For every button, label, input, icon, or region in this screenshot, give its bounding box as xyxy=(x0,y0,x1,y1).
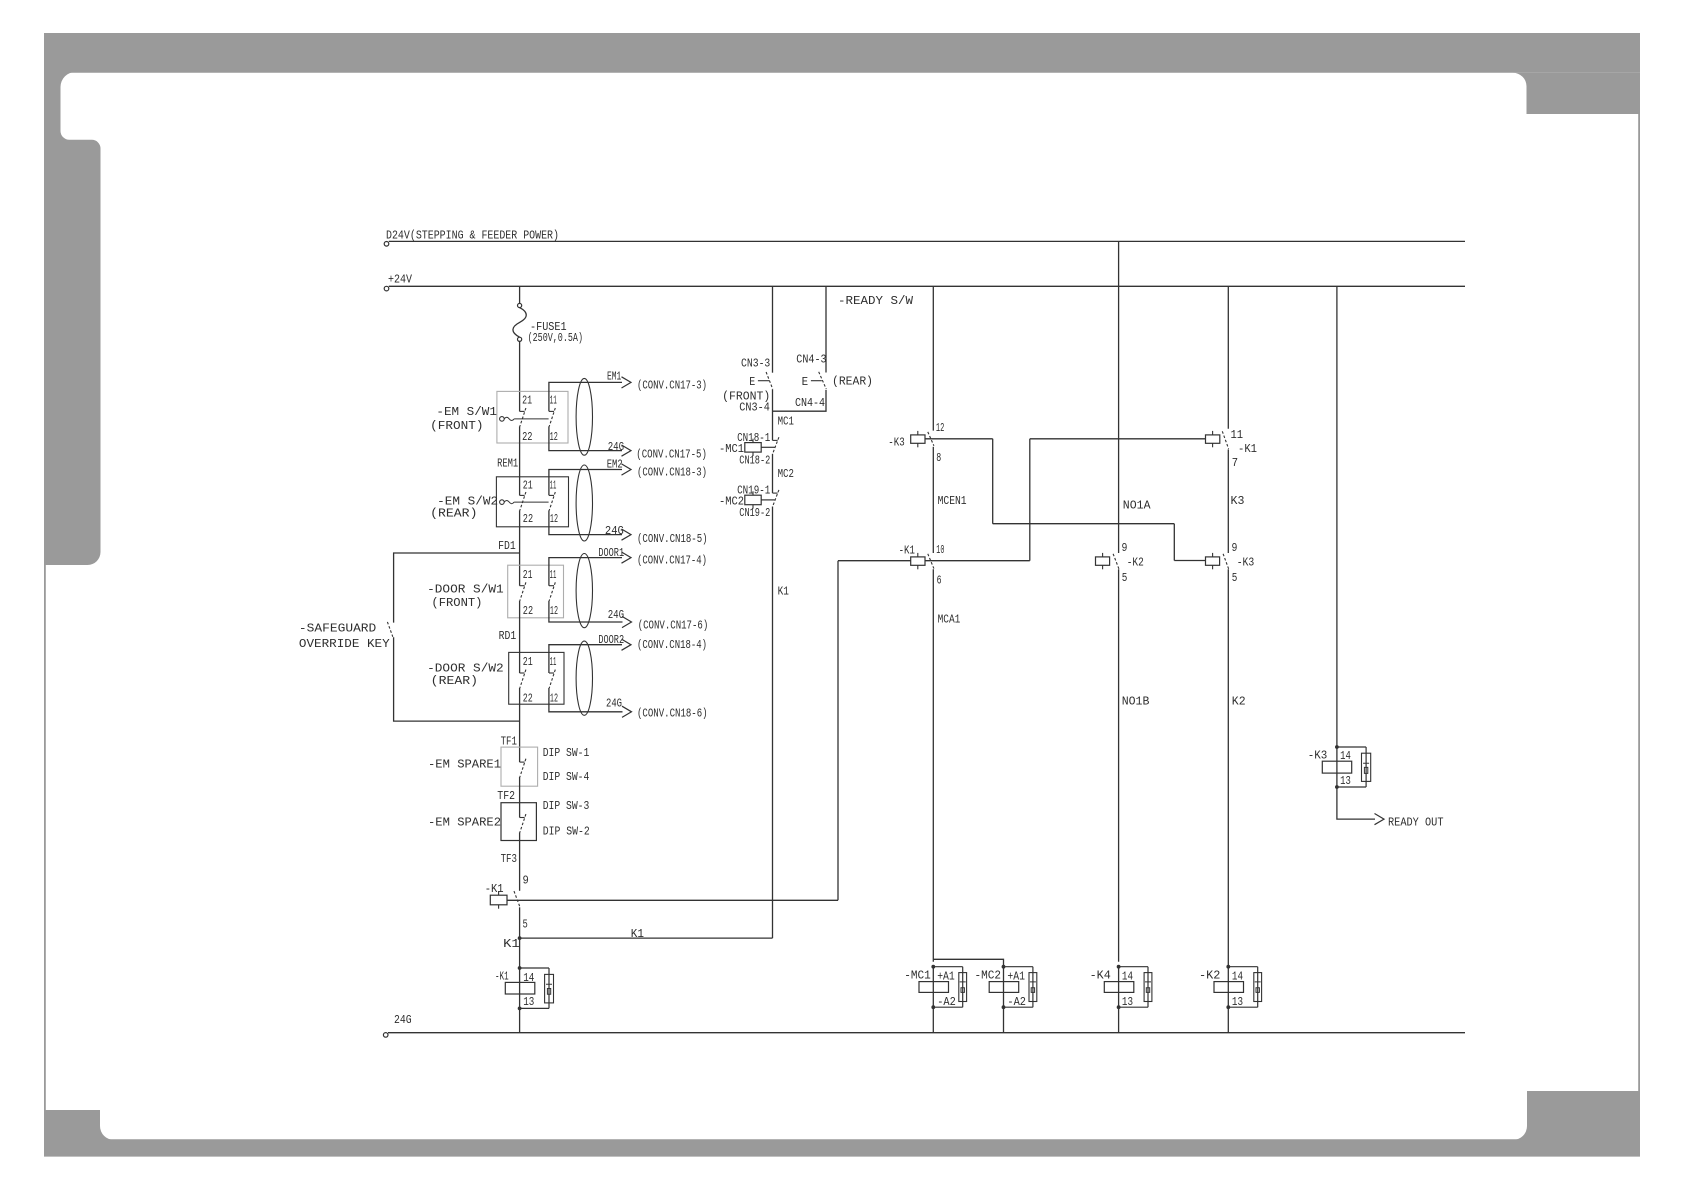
svg-text:9: 9 xyxy=(1232,541,1238,555)
relay contact -K1 slash row A right xyxy=(1222,431,1228,449)
arrow READY OUT xyxy=(1375,814,1385,825)
diode of -K1 coil xyxy=(520,968,549,1008)
relay contact -K2 slash xyxy=(1113,554,1119,569)
svg-text:12: 12 xyxy=(550,430,558,444)
svg-text:-K1: -K1 xyxy=(1238,442,1257,456)
svg-text:E: E xyxy=(802,375,809,389)
wire NO1B column lower xyxy=(1118,569,1120,962)
wire fuse to EM S/W1 xyxy=(519,341,521,411)
wire MCEN1 column mid xyxy=(932,447,934,553)
node -MC1 coil bottom junction xyxy=(931,1005,935,1009)
svg-text:9: 9 xyxy=(523,873,529,887)
svg-text:(CONV.CN17-6): (CONV.CN17-6) xyxy=(638,619,709,633)
svg-text:K1: K1 xyxy=(631,927,644,941)
node -MC2 coil top junction xyxy=(1002,965,1006,969)
svg-text:14: 14 xyxy=(1122,969,1133,983)
arrow 24G CN17-5 xyxy=(622,445,632,456)
svg-text:MCA1: MCA1 xyxy=(938,612,961,626)
wire left column below contact xyxy=(519,907,521,1032)
wire MCA1 column lower xyxy=(932,569,934,962)
arrow 24G CN18-5 xyxy=(622,529,632,540)
svg-text:-DOOR S/W1: -DOOR S/W1 xyxy=(427,583,504,597)
wire -K2 column through coil xyxy=(1227,967,1229,1008)
wire -K3 rowA to crosslink xyxy=(925,439,993,524)
svg-text:DIP SW-1: DIP SW-1 xyxy=(543,746,590,760)
svg-text:14: 14 xyxy=(1232,969,1243,983)
wire K1 link xyxy=(520,937,773,939)
relay contact -K1 flag box xyxy=(490,895,507,905)
svg-text:(REAR): (REAR) xyxy=(430,506,477,520)
svg-text:13: 13 xyxy=(1340,774,1351,788)
svg-text:E: E xyxy=(749,375,755,389)
svg-text:-EM SPARE2: -EM SPARE2 xyxy=(428,815,501,829)
switch DOOR S/W1 contact 11-12 xyxy=(549,585,554,587)
wire -MC2 box to column xyxy=(761,499,774,501)
arrow DOOR1 xyxy=(622,552,632,563)
diode of -K4 xyxy=(1119,967,1148,1008)
node -K1 coil bottom junction xyxy=(518,1007,522,1011)
svg-text:7: 7 xyxy=(1232,456,1238,470)
wire rowA to -K1 contact on K3 column xyxy=(1030,438,1206,440)
cable ellipse of EM S/W2 xyxy=(576,465,592,541)
svg-text:-SAFEGUARD: -SAFEGUARD xyxy=(299,622,376,636)
wire rear E branch join xyxy=(773,390,827,411)
switch SAFEGUARD OVERRIDE KEY contact xyxy=(387,622,392,637)
node -MC1 coil top junction xyxy=(931,965,935,969)
wire EM S/W2 to DOOR S/W1 xyxy=(519,510,521,585)
svg-text:CN19-2: CN19-2 xyxy=(739,506,770,520)
node -MC2 coil bottom junction xyxy=(1002,1005,1006,1009)
svg-text:-MC2: -MC2 xyxy=(975,969,1002,983)
svg-text:24G: 24G xyxy=(605,524,624,538)
svg-text:EM1: EM1 xyxy=(607,369,621,383)
node K1 junction xyxy=(518,936,522,940)
svg-text:13: 13 xyxy=(523,995,534,1009)
svg-text:(FRONT): (FRONT) xyxy=(430,419,483,433)
wire -MC1 box to column xyxy=(761,446,774,448)
arrow DOOR2 xyxy=(622,639,632,650)
node -K3 coil bottom junction xyxy=(1335,785,1339,789)
svg-text:-K3: -K3 xyxy=(1308,749,1328,763)
svg-text:(CONV.CN17-4): (CONV.CN17-4) xyxy=(637,554,707,568)
svg-text:-READY S/W: -READY S/W xyxy=(838,294,914,308)
wire 24G output of EM S/W2 xyxy=(549,510,622,534)
wire DOOR2 output xyxy=(549,645,622,673)
wire READY OUT xyxy=(1337,787,1375,819)
switch EM SPARE2 contact xyxy=(520,817,525,819)
svg-text:TF1: TF1 xyxy=(501,735,517,749)
svg-text:6: 6 xyxy=(937,573,942,587)
svg-text:11: 11 xyxy=(550,655,557,669)
switch DOOR S/W1 body box xyxy=(508,565,564,618)
wire between MC1 and MC2 contacts xyxy=(772,454,774,493)
switch EM S/W1 actuator xyxy=(500,417,505,422)
wire MCEN1 column upper xyxy=(932,286,934,430)
wire -MC1 coil to 24G xyxy=(932,1007,934,1032)
svg-text:(250V,0.5A): (250V,0.5A) xyxy=(528,331,583,345)
svg-text:DIP SW-2: DIP SW-2 xyxy=(543,824,590,838)
switch EM SPARE1 body box xyxy=(501,747,538,786)
relay contact -K1 flag box row A right xyxy=(1206,435,1220,443)
wire EM SPARE2 down to K1 contact xyxy=(519,832,521,890)
wire link to -K3 row C xyxy=(1174,560,1205,562)
svg-text:-K2: -K2 xyxy=(1127,555,1144,569)
wire EM SPARE1 to EM SPARE2 xyxy=(519,777,521,818)
switch CN4 rear E contact xyxy=(819,372,827,389)
svg-text:CN4-3: CN4-3 xyxy=(796,353,826,367)
arrow EM2 xyxy=(622,464,632,475)
node -K4 coil top junction xyxy=(1117,965,1121,969)
svg-text:READY OUT: READY OUT xyxy=(1388,815,1444,829)
svg-text:24G: 24G xyxy=(608,440,624,454)
svg-text:(REAR): (REAR) xyxy=(431,674,478,688)
relay contact -K1 flag box row C xyxy=(911,557,925,565)
gray top band of page frame xyxy=(44,33,1640,73)
gray bottom-left corner tab xyxy=(44,1110,114,1140)
svg-text:-K1: -K1 xyxy=(495,970,509,984)
coil rect -K2 xyxy=(1214,982,1244,993)
wire 24G output of DOOR S/W1 xyxy=(549,601,623,622)
svg-text:11: 11 xyxy=(1231,428,1244,442)
relay contact MC1 slash xyxy=(773,439,778,441)
svg-text:11: 11 xyxy=(550,394,557,408)
diode of -MC2 xyxy=(1004,967,1033,1008)
wire EM2 output xyxy=(549,470,622,496)
svg-text:11: 11 xyxy=(550,479,557,493)
svg-text:TF3: TF3 xyxy=(501,852,517,866)
fuse FUSE1 xyxy=(518,303,522,307)
switch EM SPARE2 body box xyxy=(501,803,536,841)
wire +24V rail xyxy=(389,285,1465,287)
wire 24G output of DOOR S/W2 xyxy=(549,688,623,712)
svg-text:-K4: -K4 xyxy=(1090,969,1111,983)
svg-text:NO1A: NO1A xyxy=(1123,499,1151,513)
switch CN3 front E contact xyxy=(766,372,773,389)
wire NO1A column upper xyxy=(1118,241,1120,553)
wire -K4 coil to 24G xyxy=(1118,1007,1120,1032)
arrow 24G CN17-6 xyxy=(622,616,632,627)
switch EM S/W2 contact 21-22 xyxy=(520,494,525,496)
switch EM S/W1 contact 21-22 xyxy=(520,410,525,412)
svg-text:11: 11 xyxy=(550,568,557,582)
svg-text:-EM S/W1: -EM S/W1 xyxy=(436,405,497,419)
wire K2 column lower xyxy=(1227,569,1229,967)
gray bottom-right corner tab xyxy=(1513,1091,1640,1140)
relay contact -MC1 flag box xyxy=(745,443,761,453)
svg-text:14: 14 xyxy=(1340,749,1351,763)
svg-text:RD1: RD1 xyxy=(499,629,517,643)
svg-text:FD1: FD1 xyxy=(498,539,516,553)
svg-text:-K3: -K3 xyxy=(1237,555,1255,569)
relay contact -K3 slash row A xyxy=(928,432,934,446)
svg-text:EM2: EM2 xyxy=(607,458,623,472)
svg-text:(CONV.CN18-4): (CONV.CN18-4) xyxy=(637,638,707,652)
relay contact -K1 slash row C xyxy=(928,554,934,569)
wire MCA1 horizontal to -K1 contact xyxy=(507,899,838,901)
svg-text:(CONV.CN17-3): (CONV.CN17-3) xyxy=(637,379,707,393)
svg-text:22: 22 xyxy=(523,692,533,706)
svg-text:12: 12 xyxy=(550,692,558,706)
node -K2 coil top junction xyxy=(1226,965,1230,969)
diode of -K2 xyxy=(1228,967,1257,1008)
svg-text:DIP SW-4: DIP SW-4 xyxy=(543,770,590,784)
node -K2 coil bottom junction xyxy=(1226,1005,1230,1009)
svg-text:(REAR): (REAR) xyxy=(832,375,873,389)
svg-text:22: 22 xyxy=(523,512,533,526)
coil rect -K4 xyxy=(1104,982,1134,993)
switch EM S/W1 contact 11-12 xyxy=(549,410,554,412)
wire 24G rail xyxy=(388,1032,1465,1034)
svg-text:MC2: MC2 xyxy=(778,467,794,481)
wire rowC right link xyxy=(925,560,1030,562)
node D24V terminal circle xyxy=(384,242,389,247)
wire -MC2 column through coil xyxy=(1003,967,1005,1008)
relay contact -K3 flag box row A xyxy=(911,435,925,443)
node 24G terminal circle xyxy=(383,1033,388,1038)
wire safeguard top branch xyxy=(394,553,520,623)
svg-text:K1: K1 xyxy=(778,585,789,599)
svg-text:-K1: -K1 xyxy=(899,544,915,558)
svg-text:5: 5 xyxy=(1122,571,1128,585)
svg-text:(CONV.CN17-5): (CONV.CN17-5) xyxy=(636,448,707,462)
node -K4 coil bottom junction xyxy=(1117,1005,1121,1009)
wire front E-switch column from +24V xyxy=(772,286,774,372)
svg-text:(CONV.CN18-3): (CONV.CN18-3) xyxy=(637,465,707,479)
wire +24V to fuse xyxy=(519,286,521,303)
svg-text:8: 8 xyxy=(936,451,941,465)
switch DOOR S/W2 body box xyxy=(509,652,564,704)
wire -MC2 coil to 24G xyxy=(1003,1007,1005,1032)
relay contact -K2 flag box xyxy=(1096,557,1110,565)
wire EM S/W1 to EM S/W2 xyxy=(519,426,521,495)
switch DOOR S/W2 contact 11-12 xyxy=(549,672,554,674)
wire DOOR S/W1 to DOOR S/W2 xyxy=(519,601,521,673)
relay contact -K3 flag box row C xyxy=(1206,557,1220,565)
wire -K4 column through coil xyxy=(1118,967,1120,1008)
arrow EM1 xyxy=(622,377,632,388)
relay contact -K1 slash xyxy=(514,891,520,907)
switch DOOR S/W1 contact 21-22 xyxy=(520,585,525,587)
gray left sidebar block xyxy=(44,72,101,1140)
svg-text:DOOR1: DOOR1 xyxy=(598,546,624,560)
diode of -MC1 xyxy=(933,967,962,1008)
wire K3 column upper xyxy=(1227,286,1229,429)
relay contact -MC2 flag box xyxy=(745,495,761,505)
svg-text:TF2: TF2 xyxy=(497,789,515,803)
svg-text:-K2: -K2 xyxy=(1199,969,1220,983)
wire MCA1 column vertical xyxy=(837,561,839,901)
switch EM S/W2 contact 11-12 xyxy=(549,494,554,496)
node -K1 coil top junction xyxy=(518,966,522,970)
wire safeguard bottom branch xyxy=(394,637,520,721)
svg-text:(CONV.CN18-6): (CONV.CN18-6) xyxy=(637,706,708,720)
node -K3 coil top junction xyxy=(1335,745,1339,749)
svg-text:K3: K3 xyxy=(1231,494,1245,508)
relay contact MC2 slash xyxy=(773,492,778,494)
relay contact -K3 slash row C xyxy=(1223,554,1229,569)
coil rect -MC2 xyxy=(989,982,1019,993)
svg-text:MCEN1: MCEN1 xyxy=(938,494,967,508)
svg-text:21: 21 xyxy=(522,394,532,408)
switch DOOR S/W2 contact 21-22 xyxy=(520,672,525,674)
svg-text:9: 9 xyxy=(1122,541,1128,555)
wire EM1 output xyxy=(549,382,622,411)
arrow 24G CN18-6 xyxy=(622,706,632,717)
svg-text:REM1: REM1 xyxy=(497,456,518,470)
wire -K2 coil to 24G xyxy=(1227,1007,1229,1032)
svg-text:OVERRIDE KEY: OVERRIDE KEY xyxy=(299,637,390,651)
gray right page edge line xyxy=(1638,114,1640,1091)
wire K3 coil column from +24V xyxy=(1336,286,1338,787)
wire 24G output of EM S/W1 xyxy=(549,426,622,450)
svg-text:CN3-3: CN3-3 xyxy=(741,357,770,371)
svg-text:+24V: +24V xyxy=(388,273,413,287)
svg-text:(CONV.CN18-5): (CONV.CN18-5) xyxy=(637,532,708,546)
gray top-right corner tab xyxy=(1513,73,1640,114)
svg-text:12: 12 xyxy=(936,421,945,435)
svg-text:21: 21 xyxy=(523,568,533,582)
svg-text:+A1: +A1 xyxy=(937,969,955,983)
cable ellipse of EM S/W1 xyxy=(576,378,592,455)
wire K3 column mid xyxy=(1227,449,1229,553)
svg-text:+A1: +A1 xyxy=(1007,969,1025,983)
wire vertical 1029.8 xyxy=(1029,439,1031,561)
switch EM S/W2 actuator xyxy=(500,500,505,505)
wire K1 column xyxy=(772,507,774,939)
svg-text:DOOR2: DOOR2 xyxy=(598,633,624,647)
svg-text:D24V(STEPPING & FEEDER POWER): D24V(STEPPING & FEEDER POWER) xyxy=(386,229,559,243)
svg-text:(FRONT): (FRONT) xyxy=(431,596,482,610)
svg-text:22: 22 xyxy=(523,604,533,618)
svg-text:CN3-4: CN3-4 xyxy=(739,401,770,415)
switch EM S/W1 body box xyxy=(497,391,568,443)
coil rect -MC1 xyxy=(919,982,949,993)
svg-text:5: 5 xyxy=(523,918,528,932)
svg-text:MC1: MC1 xyxy=(778,415,794,429)
svg-text:-MC1: -MC1 xyxy=(904,969,931,983)
svg-text:K2: K2 xyxy=(1232,694,1246,708)
gray bottom band of page frame xyxy=(44,1139,1640,1156)
wire -MC1 column through coil xyxy=(932,967,934,1008)
svg-text:NO1B: NO1B xyxy=(1122,694,1150,708)
switch EM S/W2 body box xyxy=(496,477,568,527)
diode of -K3 coil xyxy=(1337,747,1366,787)
svg-text:-EM SPARE1: -EM SPARE1 xyxy=(428,757,501,771)
cable ellipse of DOOR S/W1 xyxy=(576,554,592,628)
svg-text:22: 22 xyxy=(522,430,532,444)
svg-text:DIP SW-3: DIP SW-3 xyxy=(543,799,590,813)
node +24V terminal circle xyxy=(384,286,389,291)
svg-text:14: 14 xyxy=(523,971,534,985)
wire DOOR1 output xyxy=(549,558,622,586)
svg-text:CN4-4: CN4-4 xyxy=(795,396,825,410)
switch EM SPARE1 contact xyxy=(520,761,525,763)
wire MCA1 left link xyxy=(838,560,911,562)
wire D24V rail xyxy=(389,240,1465,242)
svg-text:5: 5 xyxy=(1232,571,1238,585)
svg-text:CN18-2: CN18-2 xyxy=(739,453,770,467)
svg-text:-K3: -K3 xyxy=(888,436,904,450)
svg-text:24G: 24G xyxy=(606,696,622,710)
wire rear E-switch column from +24V xyxy=(825,286,827,372)
wire front E contact to join xyxy=(772,389,774,440)
wire crosslink MC1 to MC2 xyxy=(933,959,1003,966)
cable ellipse of DOOR S/W2 xyxy=(576,641,592,715)
svg-text:10: 10 xyxy=(936,543,944,557)
svg-text:21: 21 xyxy=(523,479,533,493)
svg-text:24G: 24G xyxy=(608,608,624,622)
svg-text:-K1: -K1 xyxy=(485,882,504,896)
wire DOOR S/W2 down to TF1 xyxy=(519,688,521,762)
svg-text:12: 12 xyxy=(550,604,558,618)
svg-text:12: 12 xyxy=(550,512,558,526)
svg-text:24G: 24G xyxy=(394,1013,412,1027)
svg-text:21: 21 xyxy=(523,655,533,669)
wire crosslink row B xyxy=(993,524,1175,561)
svg-text:K1: K1 xyxy=(503,937,520,951)
